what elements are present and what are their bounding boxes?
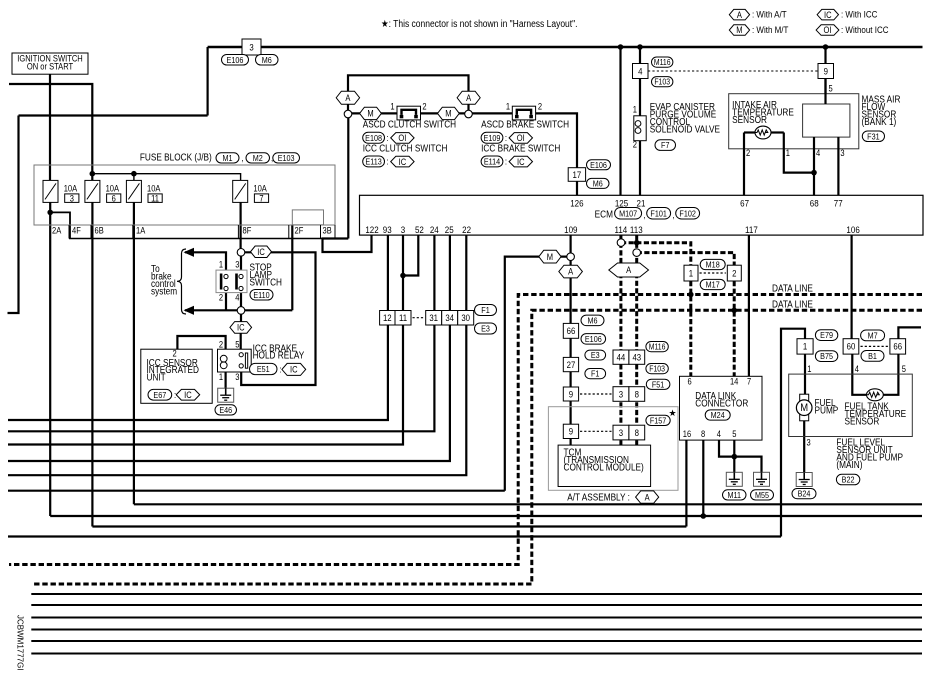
svg-text:2: 2 [538, 102, 543, 112]
svg-text:E109: E109 [484, 133, 501, 143]
svg-text:ON or START: ON or START [27, 62, 73, 72]
svg-text:B1: B1 [868, 351, 877, 361]
svg-text:SWITCH: SWITCH [250, 277, 283, 288]
svg-text:11: 11 [151, 194, 159, 204]
svg-text:10A: 10A [147, 184, 161, 194]
svg-text:17: 17 [573, 169, 582, 180]
svg-text:9: 9 [569, 426, 574, 437]
svg-text:1: 1 [506, 102, 511, 112]
svg-text:M6: M6 [262, 55, 273, 65]
svg-text:A: A [568, 267, 573, 277]
svg-text:8: 8 [635, 427, 640, 438]
svg-text:2: 2 [422, 102, 427, 112]
svg-text:F103: F103 [649, 364, 665, 374]
svg-text:M2: M2 [253, 153, 263, 163]
svg-text::: : [387, 132, 389, 143]
svg-text:1: 1 [219, 372, 224, 382]
svg-text:31: 31 [429, 312, 438, 323]
svg-text:5: 5 [902, 364, 907, 374]
svg-text:2F: 2F [294, 226, 303, 236]
svg-text:M55: M55 [755, 490, 770, 500]
svg-text:1: 1 [633, 105, 638, 115]
svg-text:★: ★ [669, 408, 677, 418]
svg-text:★: This connector is not shown: ★: This connector is not shown in "Harne… [381, 18, 578, 29]
svg-text:: With M/T: : With M/T [752, 24, 789, 35]
svg-text:8F: 8F [242, 226, 251, 236]
svg-text:IC: IC [257, 247, 265, 257]
svg-text:M6: M6 [593, 179, 604, 189]
svg-text:M107: M107 [619, 209, 637, 219]
svg-text:IC: IC [237, 323, 245, 333]
svg-text:OI: OI [824, 26, 832, 36]
svg-text:E106: E106 [590, 160, 607, 170]
svg-text:122: 122 [365, 224, 378, 235]
svg-text:10A: 10A [64, 184, 78, 194]
svg-text:F102: F102 [679, 209, 695, 219]
svg-text:3: 3 [235, 372, 240, 382]
svg-text:10A: 10A [106, 184, 120, 194]
svg-text:M: M [547, 252, 553, 262]
svg-text:M: M [445, 109, 451, 119]
svg-text:SENSOR: SENSOR [845, 416, 880, 427]
svg-text:IC: IC [290, 365, 298, 375]
svg-text:M1: M1 [222, 153, 232, 163]
svg-text::: : [505, 156, 507, 167]
svg-text:: Without ICC: : Without ICC [841, 24, 888, 35]
svg-text:12: 12 [383, 312, 392, 323]
svg-text:2: 2 [219, 293, 224, 303]
svg-text:M: M [367, 109, 373, 119]
svg-text:M7: M7 [868, 331, 878, 341]
svg-text:7: 7 [747, 377, 752, 387]
svg-text:7: 7 [259, 194, 264, 204]
svg-text:SENSOR: SENSOR [732, 114, 767, 125]
svg-text:E106: E106 [227, 55, 244, 65]
svg-text:2: 2 [746, 148, 751, 158]
svg-text:E106: E106 [585, 334, 602, 344]
svg-text:CONTROL MODULE): CONTROL MODULE) [563, 462, 643, 473]
svg-text:30: 30 [461, 312, 470, 323]
svg-text:3: 3 [401, 224, 406, 235]
svg-text:M: M [800, 402, 808, 414]
svg-text:3: 3 [619, 389, 624, 400]
svg-text:F1: F1 [591, 369, 599, 379]
svg-text:B24: B24 [798, 489, 811, 499]
svg-text:M6: M6 [587, 316, 598, 326]
svg-text:3: 3 [70, 194, 75, 204]
svg-text:F51: F51 [652, 380, 664, 390]
svg-text:A: A [466, 93, 471, 103]
svg-text:E3: E3 [591, 351, 600, 361]
svg-text:: With A/T: : With A/T [752, 9, 787, 20]
svg-text:43: 43 [632, 352, 641, 363]
svg-text:106: 106 [846, 224, 859, 235]
svg-text:3: 3 [806, 438, 811, 448]
svg-text:5: 5 [235, 340, 240, 350]
svg-text:PUMP: PUMP [815, 405, 839, 416]
svg-text:SOLENOID VALVE: SOLENOID VALVE [650, 124, 720, 135]
svg-text:A: A [626, 266, 631, 276]
svg-text:FUSE BLOCK (J/B): FUSE BLOCK (J/B) [140, 152, 212, 163]
svg-text:ECM: ECM [595, 209, 613, 220]
svg-text:44: 44 [617, 352, 626, 363]
svg-text:52: 52 [415, 224, 424, 235]
svg-text:M116: M116 [649, 342, 666, 352]
svg-text:77: 77 [834, 198, 843, 209]
svg-text:IC: IC [517, 157, 525, 167]
svg-text:DATA LINE: DATA LINE [772, 283, 813, 294]
svg-text:3B: 3B [322, 226, 332, 236]
svg-text:1: 1 [689, 268, 694, 279]
svg-text:E108: E108 [365, 133, 382, 143]
svg-text:F31: F31 [867, 132, 879, 142]
svg-text:ASCD CLUTCH SWITCH: ASCD CLUTCH SWITCH [363, 119, 456, 130]
svg-text:F103: F103 [654, 77, 670, 87]
svg-text:113: 113 [630, 224, 643, 235]
svg-text:M116: M116 [654, 57, 671, 67]
svg-text:8: 8 [701, 429, 706, 439]
svg-text:B75: B75 [820, 352, 833, 362]
svg-text:1: 1 [807, 364, 812, 374]
svg-text:CONNECTOR: CONNECTOR [695, 398, 748, 409]
svg-text:IC: IC [399, 157, 407, 167]
svg-text:2: 2 [732, 268, 737, 279]
svg-text:3: 3 [840, 148, 845, 158]
svg-text:system: system [151, 286, 177, 297]
svg-text:93: 93 [383, 224, 392, 235]
svg-text:4: 4 [717, 429, 722, 439]
svg-text:E67: E67 [153, 390, 166, 400]
svg-text:1: 1 [219, 260, 224, 270]
svg-text:1A: 1A [136, 226, 146, 236]
svg-text:: With ICC: : With ICC [841, 9, 877, 20]
svg-text:F7: F7 [661, 141, 669, 151]
svg-text:5: 5 [732, 429, 737, 439]
svg-text:A: A [345, 93, 350, 103]
svg-text:(BANK 1): (BANK 1) [862, 116, 897, 127]
svg-text:M11: M11 [727, 490, 741, 500]
svg-text:IC: IC [184, 390, 192, 400]
svg-text:6: 6 [687, 377, 692, 387]
svg-text:E46: E46 [219, 405, 232, 415]
svg-text:27: 27 [567, 359, 576, 370]
svg-text:4F: 4F [72, 226, 81, 236]
svg-text:3: 3 [235, 260, 240, 270]
svg-text:M24: M24 [711, 411, 726, 421]
svg-text:9: 9 [824, 66, 829, 77]
svg-text:66: 66 [893, 341, 902, 352]
svg-text:2A: 2A [52, 226, 62, 236]
svg-text:16: 16 [683, 429, 692, 439]
svg-text:6B: 6B [95, 226, 105, 236]
svg-text:JCBWM1777GI: JCBWM1777GI [16, 615, 25, 671]
svg-text:9: 9 [569, 389, 574, 400]
svg-text:E114: E114 [484, 157, 501, 167]
svg-text:3: 3 [619, 427, 624, 438]
svg-text:,: , [673, 209, 675, 220]
svg-text:E3: E3 [481, 324, 490, 334]
svg-text:11: 11 [399, 312, 407, 323]
svg-text:F1: F1 [481, 306, 489, 316]
svg-text:22: 22 [462, 224, 471, 235]
svg-text:E113: E113 [365, 157, 382, 167]
svg-text:21: 21 [637, 198, 646, 209]
svg-text:HOLD RELAY: HOLD RELAY [253, 350, 305, 361]
svg-text:5: 5 [829, 84, 834, 94]
svg-text:A: A [737, 10, 742, 20]
svg-text:F101: F101 [650, 209, 666, 219]
svg-text:126: 126 [570, 198, 583, 209]
svg-text:14: 14 [730, 377, 739, 387]
svg-text::: : [279, 364, 281, 375]
svg-text:117: 117 [745, 224, 758, 235]
svg-text:1: 1 [390, 102, 395, 112]
svg-text:60: 60 [847, 341, 856, 352]
svg-text:24: 24 [430, 224, 439, 235]
svg-text:E51: E51 [257, 365, 270, 375]
svg-text:DATA LINE: DATA LINE [772, 299, 813, 310]
svg-text::: : [387, 156, 389, 167]
svg-text:M18: M18 [706, 260, 721, 270]
svg-text:B22: B22 [842, 475, 855, 485]
svg-text:,: , [644, 209, 646, 220]
svg-text:4: 4 [855, 364, 860, 374]
svg-text:1: 1 [786, 148, 791, 158]
svg-text:E110: E110 [253, 290, 270, 300]
svg-text:6: 6 [112, 194, 117, 204]
svg-text:114: 114 [615, 224, 628, 235]
svg-text:A: A [645, 493, 650, 503]
svg-text:OI: OI [398, 134, 406, 144]
svg-text:ICC BRAKE SWITCH: ICC BRAKE SWITCH [481, 143, 560, 154]
svg-text:67: 67 [740, 198, 749, 209]
svg-text:1: 1 [803, 341, 808, 352]
svg-text:8: 8 [635, 389, 640, 400]
svg-text:ICC CLUTCH SWITCH: ICC CLUTCH SWITCH [363, 143, 448, 154]
svg-text:M17: M17 [706, 280, 720, 290]
svg-text::: : [505, 132, 507, 143]
svg-text:68: 68 [810, 198, 819, 209]
svg-text:F157: F157 [650, 416, 666, 426]
svg-text:109: 109 [564, 224, 577, 235]
svg-text:M: M [736, 26, 742, 36]
svg-text:4: 4 [638, 66, 643, 77]
svg-text:2: 2 [219, 340, 224, 350]
svg-text:25: 25 [445, 224, 454, 235]
svg-text:4: 4 [235, 293, 240, 303]
svg-text:ASCD BRAKE SWITCH: ASCD BRAKE SWITCH [481, 119, 569, 130]
svg-text:IC: IC [824, 10, 832, 20]
svg-text:E103: E103 [278, 153, 295, 163]
svg-text:66: 66 [567, 326, 576, 337]
svg-text:2: 2 [633, 140, 638, 150]
svg-text:3: 3 [249, 42, 254, 53]
svg-text:E79: E79 [820, 331, 833, 341]
svg-text:A/T ASSEMBLY :: A/T ASSEMBLY : [567, 492, 630, 503]
svg-text:10A: 10A [253, 184, 267, 194]
svg-text:,: , [242, 152, 244, 163]
svg-text:UNIT: UNIT [146, 372, 166, 383]
svg-text:34: 34 [445, 312, 454, 323]
svg-text:(MAIN): (MAIN) [836, 459, 862, 470]
svg-text:OI: OI [517, 134, 525, 144]
svg-text:4: 4 [816, 148, 821, 158]
